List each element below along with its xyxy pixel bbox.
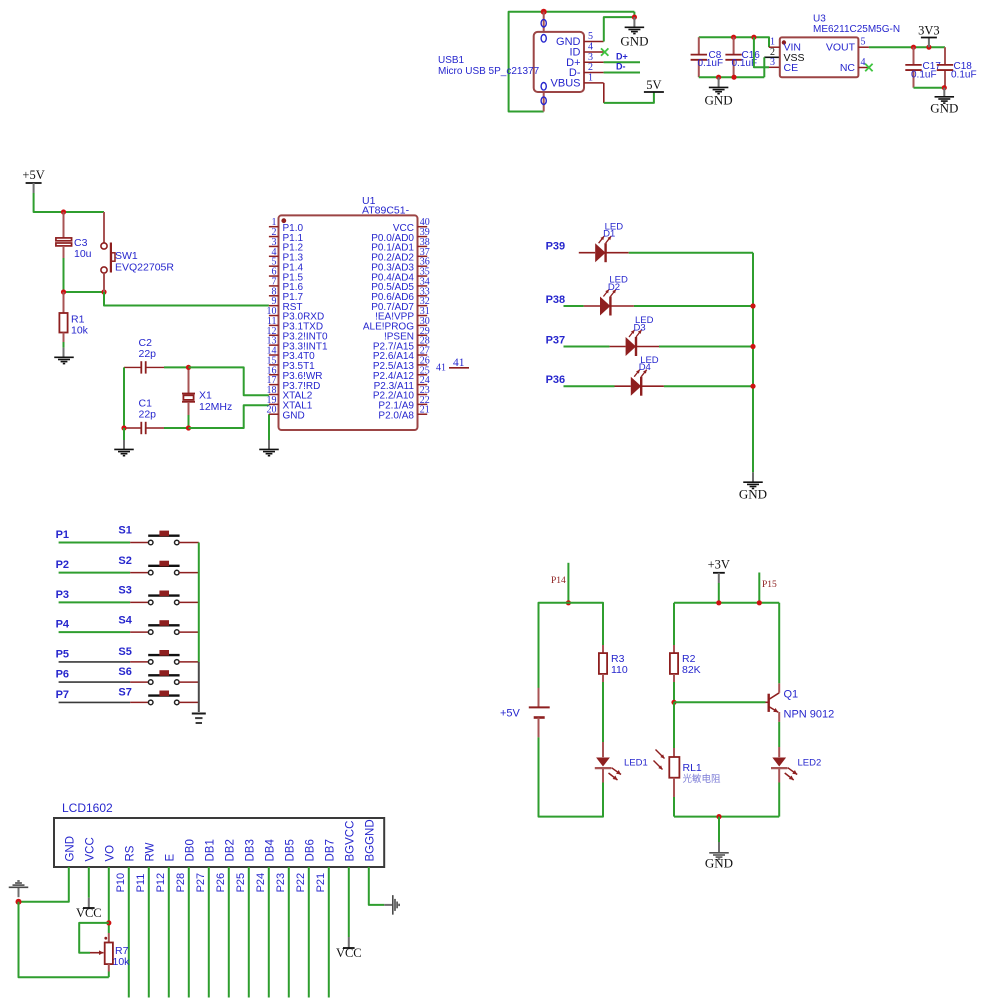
wire LCD VCC net <box>88 867 90 898</box>
svg-text:0.1uF: 0.1uF <box>698 58 724 69</box>
svg-text:D2: D2 <box>608 282 620 293</box>
wire +5V to C3/SW1 <box>34 193 104 212</box>
USB1 pin 3 D+ <box>584 61 604 63</box>
ground GND <box>718 77 720 87</box>
wire <box>564 305 584 307</box>
svg-text:P21: P21 <box>315 873 327 893</box>
svg-text:DB6: DB6 <box>304 839 316 861</box>
wire <box>539 737 604 816</box>
wire <box>248 867 250 998</box>
svg-text:22p: 22p <box>139 409 157 421</box>
svg-text:ME6211C25M5G-N: ME6211C25M5G-N <box>813 24 900 35</box>
switch SW1 <box>103 212 105 243</box>
wire RST net <box>104 292 269 306</box>
wire button ground bus <box>198 543 200 662</box>
no-connect X on USB pin 4 ID <box>601 48 608 55</box>
wire <box>718 583 720 603</box>
svg-text:P3: P3 <box>56 589 69 601</box>
svg-text:P27: P27 <box>195 873 207 893</box>
capacitor C18 <box>944 47 946 65</box>
switch S3 <box>148 600 153 605</box>
U3 pin 5 VOUT <box>858 46 869 48</box>
wire <box>164 366 189 368</box>
wire left branch <box>673 603 675 645</box>
LCD1602 connector body <box>54 818 384 867</box>
wire <box>602 682 604 742</box>
svg-text:GND: GND <box>64 836 76 862</box>
svg-text:VCC: VCC <box>76 906 102 920</box>
wire base net <box>674 701 766 703</box>
svg-text:Micro USB 5P_c21377: Micro USB 5P_c21377 <box>438 66 540 77</box>
U1 pin 30 ALE!PROG <box>418 324 428 326</box>
U1 pin 20 GND <box>269 413 279 415</box>
wire <box>509 12 635 112</box>
svg-text:P15: P15 <box>762 580 777 590</box>
USB1 pin 4 ID <box>584 51 604 53</box>
svg-text:20: 20 <box>267 405 277 416</box>
U1 pin 32 P0.7/AD7 <box>418 305 428 307</box>
wire LCD BGGND net <box>369 867 384 905</box>
U1 pin 40 VCC <box>418 226 428 228</box>
LED D2 <box>600 297 610 316</box>
power flag VCC <box>348 937 350 948</box>
svg-text:P11: P11 <box>135 874 147 893</box>
USB1 connector body <box>543 12 545 33</box>
wire <box>59 542 131 544</box>
wire <box>179 601 199 603</box>
svg-text:+5V: +5V <box>500 708 521 720</box>
svg-text:5: 5 <box>588 31 593 42</box>
wire <box>579 252 595 254</box>
svg-text:22p: 22p <box>139 348 157 360</box>
wire <box>123 367 125 428</box>
junction <box>926 45 931 50</box>
U1 pin 39 P0.0/AD0 <box>418 236 428 238</box>
svg-text:P24: P24 <box>255 873 267 893</box>
capacitor C17 <box>913 47 915 65</box>
capacitor C1 <box>124 427 141 429</box>
wire <box>778 722 780 747</box>
svg-text:E: E <box>164 854 176 862</box>
wire <box>673 682 675 702</box>
U1 pin 25 P2.4/A12 <box>418 374 428 376</box>
wire <box>128 867 130 998</box>
svg-text:D4: D4 <box>639 362 651 373</box>
switch S4 <box>148 630 153 635</box>
wire <box>610 305 634 307</box>
junction <box>751 35 756 40</box>
svg-text:D-: D- <box>616 62 626 72</box>
U1 pin 27 P2.6/A14 <box>418 354 428 356</box>
svg-text:2: 2 <box>588 62 593 73</box>
USB1 pin 2 D- <box>584 72 604 74</box>
wire <box>59 631 131 633</box>
wire <box>673 702 675 748</box>
wire CE tie to VIN <box>754 37 769 67</box>
wire <box>59 661 131 663</box>
junction <box>61 289 66 294</box>
U1 pin 37 P0.2/AD2 <box>418 255 428 257</box>
wire XTAL2 net <box>189 367 269 395</box>
U1 pin 9 RST <box>269 305 279 307</box>
junction <box>671 700 676 705</box>
svg-text:P2: P2 <box>56 559 69 571</box>
LED D4 <box>631 377 641 396</box>
U1 pin 24 P2.3/A11 <box>418 384 428 386</box>
wire <box>123 428 125 440</box>
capacitor C2 <box>124 366 141 368</box>
wire ground rail <box>914 87 946 89</box>
U1 pin 1 P1.0 <box>269 226 279 228</box>
svg-text:0.1uF: 0.1uF <box>951 70 977 81</box>
wire left loop <box>539 603 604 708</box>
svg-text:BGVCC: BGVCC <box>344 821 356 862</box>
wire <box>168 867 170 998</box>
svg-text:P26: P26 <box>215 873 227 893</box>
microcontroller U1 AT89C51 body <box>279 215 418 430</box>
svg-text:0.1uF: 0.1uF <box>911 70 937 81</box>
svg-text:P25: P25 <box>235 873 247 893</box>
wire VIN net <box>699 37 769 47</box>
junction <box>121 425 126 430</box>
svg-text:DB2: DB2 <box>224 839 236 861</box>
svg-text:82K: 82K <box>682 664 701 676</box>
svg-text:NC: NC <box>840 62 856 74</box>
ground <box>192 713 206 715</box>
svg-text:BGGND: BGGND <box>364 819 376 861</box>
U1 pin 17 P3.7!RD <box>269 384 279 386</box>
svg-text:VCC: VCC <box>336 946 362 960</box>
svg-text:P1: P1 <box>56 529 69 541</box>
U1 pin 28 P2.7/A15 <box>418 344 428 346</box>
battery +5V <box>538 688 540 708</box>
USB1 pin 1 VBUS <box>584 82 604 84</box>
wire R7 wiper tie <box>79 923 109 953</box>
transistor Q1 NPN 9012 <box>768 694 770 712</box>
svg-text:P28: P28 <box>175 873 187 893</box>
wire VOUT 3V3 net <box>869 46 945 48</box>
wire XTAL1 net <box>189 405 269 428</box>
junction <box>186 425 191 430</box>
svg-text:S3: S3 <box>118 585 131 597</box>
U1 pin 10 P3.0RXD <box>269 315 279 317</box>
U1 pin 33 P0.6/AD6 <box>418 295 428 297</box>
svg-text:GND: GND <box>930 101 958 116</box>
svg-text:S1: S1 <box>118 525 131 537</box>
U1 pin 7 P1.6 <box>269 285 279 287</box>
wire <box>179 572 199 574</box>
potentiometer R7 <box>108 933 110 943</box>
junction <box>566 600 571 605</box>
U3 pin 1 VIN <box>769 46 780 48</box>
svg-text:S6: S6 <box>118 666 131 678</box>
svg-text:P22: P22 <box>295 873 307 893</box>
wire net 41 <box>449 367 469 369</box>
svg-text:RW: RW <box>144 842 156 861</box>
U1 pin 29 !PSEN <box>418 334 428 336</box>
U3 pin 4 NC <box>858 67 869 69</box>
U1 pin 2 P1.1 <box>269 236 279 238</box>
svg-text:SW1: SW1 <box>115 250 138 262</box>
junction <box>750 384 755 389</box>
wire <box>59 601 131 603</box>
svg-text:DB3: DB3 <box>244 839 256 861</box>
ground <box>384 904 393 906</box>
wire bottom rail <box>674 816 779 818</box>
U1 pin 11 P3.1TXD <box>269 324 279 326</box>
wire <box>179 701 199 703</box>
regulator U3 body <box>780 37 859 77</box>
svg-text:P10: P10 <box>115 873 127 893</box>
junction <box>731 35 736 40</box>
svg-text:1: 1 <box>588 72 593 83</box>
junction <box>716 814 721 819</box>
svg-text:S4: S4 <box>118 614 132 626</box>
photoresistor RL1 <box>673 748 675 757</box>
ground <box>18 888 20 897</box>
svg-text:CE: CE <box>784 62 799 74</box>
switch S7 <box>148 700 153 705</box>
LED LED2 <box>778 747 780 757</box>
wire <box>179 681 199 683</box>
wire <box>268 867 270 998</box>
svg-text:12MHz: 12MHz <box>199 401 232 413</box>
junction <box>16 899 22 905</box>
svg-text:4: 4 <box>861 57 866 68</box>
no-connect X on U3 pin 4 <box>865 64 872 71</box>
svg-text:41: 41 <box>453 357 465 369</box>
wire <box>564 385 615 387</box>
ground <box>63 348 65 357</box>
svg-text:GND: GND <box>620 34 648 49</box>
wire <box>59 572 131 574</box>
ground GND <box>633 17 635 27</box>
switch S2 <box>148 570 153 575</box>
wire P14 net <box>567 563 569 603</box>
switch S1 <box>148 540 153 545</box>
svg-text:S2: S2 <box>118 555 131 567</box>
ground <box>123 440 125 449</box>
U1 pin 19 XTAL1 <box>269 403 279 405</box>
wire <box>188 867 190 998</box>
wire top rail <box>674 602 779 604</box>
junction <box>541 9 547 15</box>
svg-text:DB7: DB7 <box>324 839 336 861</box>
wire <box>64 291 105 293</box>
svg-text:P37: P37 <box>546 335 566 347</box>
svg-text:NPN 9012: NPN 9012 <box>784 709 835 721</box>
svg-text:P7: P7 <box>56 689 69 701</box>
wire P15 net <box>758 573 760 603</box>
svg-text:X1: X1 <box>199 390 212 402</box>
svg-text:GND: GND <box>705 93 733 108</box>
capacitor C16 <box>733 37 735 54</box>
junction <box>731 75 736 80</box>
U1 pin 3 P1.2 <box>269 245 279 247</box>
wire <box>19 902 109 978</box>
svg-text:VOUT: VOUT <box>826 42 856 54</box>
svg-text:VO: VO <box>104 845 116 862</box>
svg-text:110: 110 <box>611 664 628 676</box>
U1 pin 22 P2.1/A9 <box>418 403 428 405</box>
U1 pin 38 P0.1/AD1 <box>418 245 428 247</box>
resistor R3 <box>602 645 604 653</box>
wire <box>179 661 199 663</box>
svg-text:P2.0/A8: P2.0/A8 <box>378 410 414 421</box>
wire <box>308 867 310 998</box>
svg-text:EVQ22705R: EVQ22705R <box>115 262 174 274</box>
svg-text:P38: P38 <box>546 294 566 306</box>
ground GND <box>943 88 945 97</box>
svg-text:P6: P6 <box>56 669 69 681</box>
svg-text:P12: P12 <box>155 873 167 893</box>
svg-text:P36: P36 <box>546 374 566 386</box>
svg-text:+5V: +5V <box>22 168 44 182</box>
junction <box>750 344 755 349</box>
wire LCD BGVCC net <box>348 867 350 937</box>
U1 pin 8 P1.7 <box>269 295 279 297</box>
wire <box>179 542 199 544</box>
svg-text:VBUS: VBUS <box>551 77 581 89</box>
svg-text:D3: D3 <box>634 323 646 334</box>
ground GND <box>718 817 720 842</box>
junction <box>632 15 637 20</box>
svg-text:Q1: Q1 <box>784 689 799 701</box>
U1 pin 23 P2.2/A10 <box>418 393 428 395</box>
wire <box>148 867 150 998</box>
U1 pin 21 P2.0/A8 <box>418 413 428 415</box>
wire <box>164 427 189 429</box>
junction <box>716 75 721 80</box>
svg-text:LCD1602: LCD1602 <box>62 801 113 815</box>
wire LCD VO net <box>108 867 110 933</box>
U1 pin 34 P0.5/AD5 <box>418 285 428 287</box>
U1 pin 31 !EA!VPP <box>418 315 428 317</box>
crystal X1 12MHz <box>188 367 190 393</box>
U1 pin 35 P0.4/AD4 <box>418 275 428 277</box>
svg-text:P39: P39 <box>546 241 566 253</box>
svg-text:GND: GND <box>739 487 767 502</box>
U1 pin 16 P3.6!WR <box>269 374 279 376</box>
U1 pin 4 P1.3 <box>269 255 279 257</box>
svg-text:3: 3 <box>770 57 775 68</box>
USB1 pin 5 GND <box>584 41 604 43</box>
junction <box>61 209 66 214</box>
svg-text:AT89C51-: AT89C51- <box>362 205 410 217</box>
wire D+ net <box>604 61 640 63</box>
svg-text:21: 21 <box>420 405 430 416</box>
wire VSS to ground rail <box>764 56 780 58</box>
svg-text:RS: RS <box>124 845 136 861</box>
svg-text:GND: GND <box>283 410 305 421</box>
switch S5 <box>148 660 153 665</box>
capacitor C8 <box>698 37 700 54</box>
svg-text:DB4: DB4 <box>264 839 276 862</box>
power flag VCC <box>88 898 90 908</box>
wire right branch <box>778 603 780 683</box>
svg-text:GND: GND <box>705 856 733 871</box>
switch S6 <box>148 680 153 685</box>
svg-text:3V3: 3V3 <box>918 24 940 38</box>
junction <box>911 45 916 50</box>
svg-text:P4: P4 <box>56 619 70 631</box>
svg-text:5V: 5V <box>646 78 661 92</box>
svg-text:S7: S7 <box>118 686 131 698</box>
svg-text:D1: D1 <box>603 229 615 240</box>
svg-text:10k: 10k <box>71 325 89 337</box>
wire <box>606 252 629 254</box>
wire <box>228 867 230 998</box>
ground GND <box>752 472 754 482</box>
U1 pin 12 P3.2!INT0 <box>269 334 279 336</box>
wire D- net <box>604 72 640 74</box>
junction <box>942 85 947 90</box>
svg-text:P23: P23 <box>275 873 287 893</box>
svg-text:10k: 10k <box>113 956 131 968</box>
R7 wiper arrow <box>90 952 104 954</box>
LED D1 <box>595 243 605 262</box>
resistor R2 <box>673 645 675 653</box>
LED D3 <box>626 337 636 356</box>
svg-text:USB1: USB1 <box>438 55 465 66</box>
wire <box>564 346 610 348</box>
U1 pin 5 P1.4 <box>269 265 279 267</box>
U1 pin 13 P3.3!INT1 <box>269 344 279 346</box>
junction <box>186 365 191 370</box>
wire GND net from USB pin 5 <box>604 17 635 41</box>
svg-text:P14: P14 <box>551 576 566 586</box>
resistor R1 <box>63 292 65 313</box>
svg-text:P5: P5 <box>56 648 69 660</box>
capacitor C3 polarized <box>63 212 65 238</box>
U1 pin 14 P3.4T0 <box>269 354 279 356</box>
U1 pin 26 P2.5/A13 <box>418 364 428 366</box>
wire MCU GND <box>268 414 270 440</box>
svg-text:S5: S5 <box>118 646 131 658</box>
U1 pin 18 XTAL2 <box>269 393 279 395</box>
wire LED ground bus <box>752 253 754 473</box>
ground <box>259 448 279 450</box>
wire <box>328 867 330 998</box>
power flag 3V3 <box>928 38 930 48</box>
svg-text:DB5: DB5 <box>284 839 296 861</box>
svg-text:U3: U3 <box>813 14 826 25</box>
svg-text:D+: D+ <box>616 52 628 62</box>
U1 pin 36 P0.3/AD3 <box>418 265 428 267</box>
wire 5V net from USB pin 1 VBUS <box>603 83 605 103</box>
svg-text:41: 41 <box>436 363 446 374</box>
LED LED1 <box>602 742 604 757</box>
U1 pin 6 P1.5 <box>269 275 279 277</box>
svg-text:DB1: DB1 <box>204 839 216 861</box>
junction <box>757 600 762 605</box>
svg-text:+3V: +3V <box>708 558 730 572</box>
U1 pin 15 P3.5T1 <box>269 364 279 366</box>
svg-text:VCC: VCC <box>84 837 96 861</box>
wire <box>59 701 131 703</box>
wire <box>179 631 199 633</box>
wire LCD GND net <box>19 867 69 902</box>
svg-text:光敏电阻: 光敏电阻 <box>683 773 722 785</box>
wire ground rail <box>699 76 765 78</box>
svg-text:LED2: LED2 <box>798 758 822 769</box>
svg-text:LED1: LED1 <box>624 758 648 769</box>
power flag 5V <box>644 91 664 93</box>
wire <box>208 867 210 998</box>
svg-text:DB0: DB0 <box>184 839 196 861</box>
junction <box>716 600 721 605</box>
wire <box>636 346 659 348</box>
